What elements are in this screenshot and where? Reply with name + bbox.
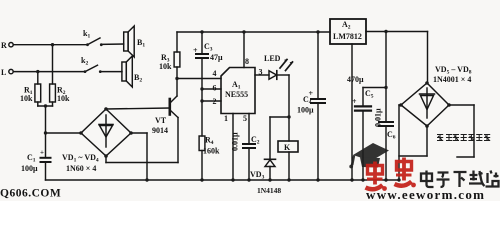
svg-text:VD3: VD3 xyxy=(250,170,265,181)
svg-text:C1: C1 xyxy=(27,153,36,164)
svg-text:VD1 ~ VD4: VD1 ~ VD4 xyxy=(62,153,99,164)
svg-text:4: 4 xyxy=(213,69,217,78)
svg-text:+: + xyxy=(309,89,314,98)
svg-text:470μ: 470μ xyxy=(347,75,364,84)
svg-text:www.eeworm.com: www.eeworm.com xyxy=(366,187,485,201)
svg-text:+: + xyxy=(352,97,357,106)
svg-text:NE555: NE555 xyxy=(225,90,248,99)
svg-text:10k: 10k xyxy=(159,62,172,71)
svg-text:47μ: 47μ xyxy=(210,53,223,62)
svg-text:C6: C6 xyxy=(387,130,396,141)
svg-text:160k: 160k xyxy=(203,147,220,156)
svg-text:B1: B1 xyxy=(137,38,145,49)
svg-text:1N60 × 4: 1N60 × 4 xyxy=(66,164,96,173)
svg-text:Q606.COM: Q606.COM xyxy=(0,188,61,200)
svg-text:8: 8 xyxy=(245,57,249,66)
svg-text:C2: C2 xyxy=(251,135,260,146)
svg-text:100μ: 100μ xyxy=(21,164,38,173)
svg-text:A1: A1 xyxy=(232,80,241,91)
svg-text:1N4148: 1N4148 xyxy=(257,186,281,195)
svg-text:9014: 9014 xyxy=(152,126,168,135)
svg-text:+: + xyxy=(193,46,198,55)
svg-text:R4: R4 xyxy=(205,136,214,147)
svg-text:LED: LED xyxy=(264,54,281,63)
svg-text:2: 2 xyxy=(213,97,217,106)
svg-text:10k: 10k xyxy=(57,94,70,103)
svg-text:K: K xyxy=(284,143,291,152)
svg-text:C5: C5 xyxy=(365,89,374,100)
svg-text:R: R xyxy=(1,41,7,50)
svg-text:5: 5 xyxy=(243,114,247,123)
svg-text:C3: C3 xyxy=(204,42,213,53)
svg-text:B2: B2 xyxy=(134,73,142,84)
svg-text:k2: k2 xyxy=(81,56,88,67)
svg-text:1: 1 xyxy=(224,114,228,123)
svg-text:L: L xyxy=(1,68,6,77)
svg-text:LM7812: LM7812 xyxy=(333,32,362,41)
svg-text:VD5 – VD8: VD5 – VD8 xyxy=(435,65,472,76)
svg-text:1N4001 × 4: 1N4001 × 4 xyxy=(433,75,471,84)
svg-text:6: 6 xyxy=(213,84,217,93)
svg-text:k1: k1 xyxy=(83,29,90,40)
svg-text:A2: A2 xyxy=(342,20,351,31)
svg-text:3: 3 xyxy=(259,68,263,77)
svg-text:10k: 10k xyxy=(20,94,33,103)
svg-text:0.01μ: 0.01μ xyxy=(231,132,240,151)
svg-text:VT: VT xyxy=(155,116,167,125)
svg-text:100μ: 100μ xyxy=(297,106,314,115)
svg-text:+: + xyxy=(40,149,44,157)
svg-text:0.01μ: 0.01μ xyxy=(374,108,383,127)
